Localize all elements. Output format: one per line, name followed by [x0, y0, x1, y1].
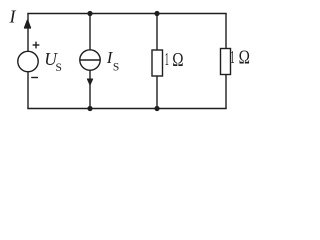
label: IS (current source) — [106, 48, 120, 73]
polarity mark + of US — [33, 42, 40, 49]
label: value 1 Ohm of R1 — [165, 49, 184, 71]
current arrow of IS (downward arrowhead below source) — [87, 79, 93, 85]
node: bottom junction of resistor R1 branch — [154, 106, 159, 111]
svg-text:I: I — [9, 7, 17, 27]
svg-text:Ω: Ω — [172, 50, 183, 71]
voltage source US (circle) — [18, 51, 38, 71]
svg-text:1: 1 — [230, 47, 234, 67]
svg-text:S: S — [113, 61, 119, 73]
label: US (voltage source) — [44, 49, 62, 74]
current arrow of I (upward arrowhead on left branch) — [25, 20, 31, 28]
node: top junction of current source branch — [87, 11, 92, 16]
node: top junction of resistor R1 branch — [154, 11, 159, 16]
wire: current source branch — [89, 14, 91, 109]
wire: right branch (resistor R2 branch) — [225, 14, 227, 109]
wire: left branch (voltage source branch) — [27, 14, 29, 109]
resistor R2 (right branch) — [221, 49, 231, 75]
resistor R1 (middle branch) — [152, 50, 163, 76]
polarity mark - of US — [31, 77, 38, 79]
svg-text:S: S — [56, 62, 62, 74]
node: bottom junction of current source branch — [87, 106, 92, 111]
svg-text:1: 1 — [165, 49, 169, 69]
svg-text:Ω: Ω — [239, 48, 250, 69]
wire: top bus — [27, 13, 226, 15]
current source IS (circle with horizontal bar) — [80, 50, 100, 70]
label: value 1 Ohm of R2 — [230, 47, 250, 69]
wire: middle resistor R1 branch — [156, 14, 158, 109]
wire: bottom bus — [27, 108, 226, 110]
